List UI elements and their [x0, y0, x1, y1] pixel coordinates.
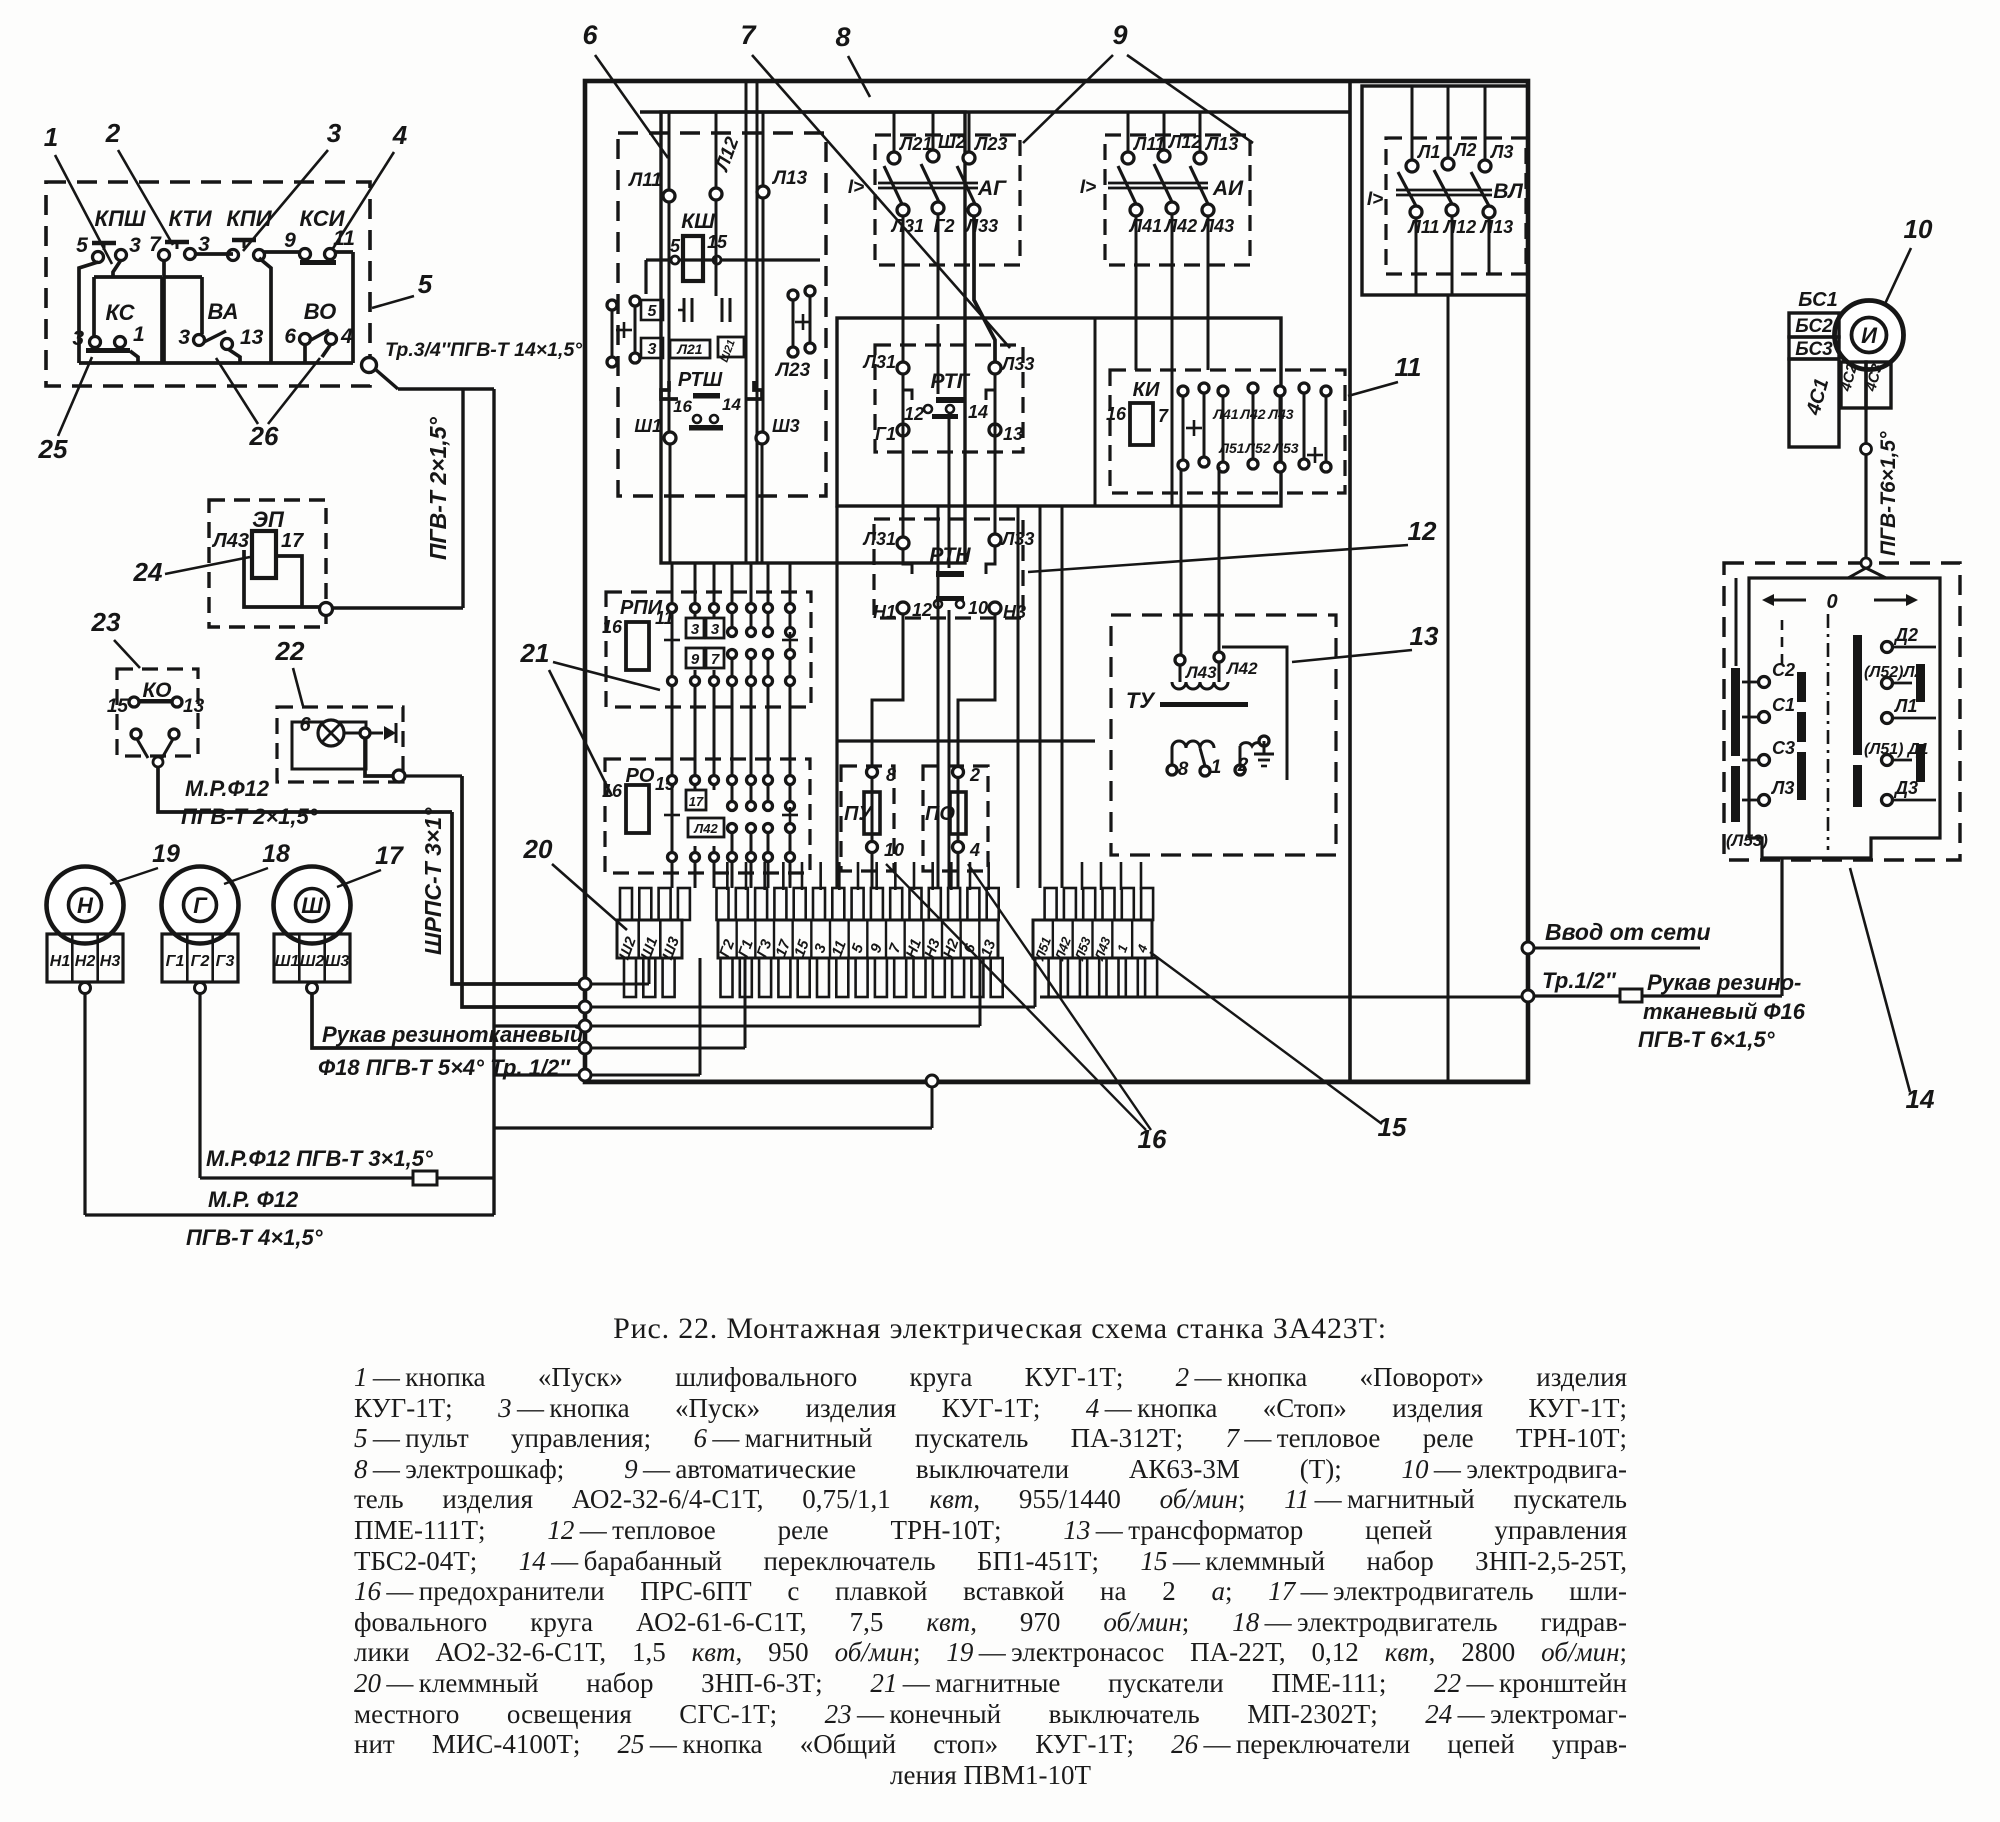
svg-text:Г2: Г2: [191, 953, 210, 970]
terminal G1: [897, 424, 909, 436]
TU primary winding: [1172, 682, 1228, 689]
svg-text:12: 12: [904, 404, 924, 424]
svg-text:8: 8: [835, 22, 850, 52]
svg-text:М.Р.Ф12 ПГВ-Т 3×1,5°: М.Р.Ф12 ПГВ-Т 3×1,5°: [206, 1146, 433, 1171]
wires AG down: [902, 216, 905, 362]
svg-text:Ш1: Ш1: [275, 953, 300, 970]
svg-text:Л31: Л31: [862, 352, 896, 372]
terminal strip 15 group main: [718, 920, 998, 958]
drum terminal S3: [1759, 755, 1770, 766]
svg-text:13: 13: [1003, 424, 1023, 444]
node Vvod ot seti: [1522, 942, 1534, 954]
svg-text:25: 25: [38, 434, 68, 464]
svg-text:6: 6: [960, 941, 979, 955]
svg-text:Н1: Н1: [50, 953, 71, 970]
svg-text:Ш3: Ш3: [772, 416, 800, 436]
cabinet bottom edge wire to mains: [585, 1080, 1526, 1083]
terminal riser stubs group B: [726, 862, 729, 890]
svg-text:12: 12: [1408, 516, 1437, 546]
svg-text:ПГВ-Т 6×1,5°: ПГВ-Т 6×1,5°: [1638, 1027, 1775, 1052]
svg-text:ВО: ВО: [304, 299, 336, 324]
svg-text:0: 0: [1826, 591, 1837, 613]
svg-text:4: 4: [340, 325, 353, 348]
terminal L33: [989, 362, 1001, 374]
AI wires from bus: [1127, 112, 1130, 152]
svg-text:Л42: Л42: [1163, 216, 1197, 236]
svg-text:КПШ: КПШ: [95, 206, 146, 231]
KO exit node: [153, 757, 163, 767]
push-button KSI: [300, 249, 311, 260]
wire trunk branch 1075: [494, 1073, 579, 1076]
motor I (electric motor 10): [1835, 301, 1904, 370]
terminal 13: [989, 424, 1001, 436]
wires fuses to terminals: [871, 852, 874, 888]
svg-text:21: 21: [520, 638, 550, 668]
svg-text:1: 1: [44, 122, 58, 152]
svg-text:Н1: Н1: [873, 602, 896, 622]
cabinet divider: [1348, 81, 1352, 1081]
inner solid compartment A: [661, 112, 965, 563]
motor Н terminal box: [47, 934, 123, 982]
svg-text:1: 1: [1211, 757, 1222, 778]
terminal L33: [989, 534, 1001, 546]
svg-text:Л41: Л41: [1212, 406, 1238, 422]
mains fuse: [1620, 989, 1642, 1002]
TU secondary 2: [1240, 743, 1264, 746]
drum terminal D1: [1882, 755, 1893, 766]
svg-text:10: 10: [884, 840, 904, 860]
RTN heater: [936, 571, 964, 577]
svg-text:3: 3: [129, 234, 141, 257]
svg-text:24: 24: [133, 557, 163, 587]
svg-text:Л12: Л12: [1167, 132, 1201, 152]
svg-text:17: 17: [375, 842, 404, 870]
svg-text:(Л53): (Л53): [1726, 831, 1768, 850]
svg-text:Рукав резино-: Рукав резино-: [1647, 970, 1801, 995]
svg-text:2: 2: [969, 765, 980, 785]
svg-text:Ш3: Ш3: [325, 953, 350, 970]
svg-text:10: 10: [1904, 214, 1933, 244]
terminal L31: [897, 362, 909, 374]
svg-text:17: 17: [689, 794, 704, 809]
svg-text:7: 7: [711, 651, 720, 668]
svg-text:8: 8: [1178, 759, 1189, 780]
EP node: [320, 603, 333, 616]
svg-text:Л42: Л42: [1225, 659, 1258, 678]
VL trip bar: [1396, 189, 1492, 192]
lamp node: [393, 770, 405, 782]
svg-text:7: 7: [886, 941, 905, 955]
entry nodes on cabinet left edge: [579, 978, 591, 990]
wires RTG-RTN: [902, 374, 905, 537]
terminal BS2 cell: [1789, 313, 1839, 337]
lamp bracket SGS box 22: [277, 707, 403, 782]
input switch VL dashed box: [1386, 138, 1526, 274]
RTG heater: [936, 397, 964, 403]
lamp wire: [344, 732, 360, 735]
svg-text:ВЛ: ВЛ: [1493, 180, 1523, 203]
node on bottom wire: [926, 1075, 938, 1087]
svg-text:15: 15: [107, 696, 129, 717]
aux contacts right: [788, 290, 798, 300]
svg-text:ПУ: ПУ: [844, 803, 873, 825]
svg-text:Л2: Л2: [1452, 140, 1476, 160]
cabinet bottom inner wires: [591, 983, 649, 986]
wire KO cable down: [452, 812, 579, 984]
breaker AI box 9: [1105, 135, 1250, 265]
svg-text:Л23: Л23: [774, 360, 811, 381]
svg-text:1: 1: [133, 323, 145, 346]
motor Ш (electric motor): [274, 867, 351, 944]
wire N motor cable: [83, 994, 86, 1215]
svg-text:16: 16: [1138, 1124, 1167, 1154]
drum contact bars mid-right: [1853, 635, 1862, 755]
svg-text:9: 9: [867, 941, 886, 955]
svg-text:Л42: Л42: [1239, 406, 1265, 422]
aux contacts mid: [683, 298, 686, 322]
svg-text:Г1: Г1: [875, 424, 896, 444]
svg-text:КО: КО: [143, 679, 172, 702]
terminal 4S1 cell: [1789, 359, 1839, 447]
terminal L12: [710, 188, 722, 200]
svg-text:Г3: Г3: [754, 937, 776, 960]
svg-text:3: 3: [811, 941, 830, 955]
TU ground: [1259, 736, 1269, 746]
RTSh contact: [693, 415, 701, 423]
starter RPI box: [606, 592, 811, 707]
wire pult to trunk: [375, 369, 398, 389]
TU inner frame: [1222, 647, 1287, 780]
svg-text:11: 11: [829, 938, 850, 958]
svg-text:И: И: [1861, 323, 1878, 348]
VL wires down: [1415, 218, 1418, 295]
wires inside box 6: [668, 202, 671, 432]
svg-text:М.Р. Ф12: М.Р. Ф12: [208, 1187, 299, 1212]
svg-text:9: 9: [284, 229, 296, 252]
terminal Sh3: [756, 432, 768, 444]
wire mains to fuse: [1534, 994, 1620, 997]
svg-text:I>: I>: [1367, 189, 1383, 210]
wire bottom external: [494, 1126, 932, 1129]
node on I wire: [1861, 444, 1872, 455]
svg-text:16: 16: [673, 397, 692, 416]
svg-text:18: 18: [262, 840, 290, 868]
terminal strip C bottom rail to mains: [1040, 996, 1526, 999]
EP wiring: [244, 550, 322, 607]
svg-text:Л43: Л43: [211, 530, 249, 552]
svg-text:6: 6: [582, 20, 598, 50]
compartment divider: [1094, 318, 1097, 506]
svg-text:Ш21: Ш21: [719, 338, 738, 364]
compartment B left edge extension: [835, 506, 838, 888]
svg-text:9: 9: [691, 651, 700, 668]
svg-text:Ш1: Ш1: [634, 416, 662, 436]
TU core: [1160, 702, 1248, 707]
svg-text:Л3: Л3: [1770, 778, 1794, 798]
svg-text:тканевый Ф16: тканевый Ф16: [1643, 999, 1806, 1024]
terminal 4S3 cell: [1866, 362, 1891, 408]
svg-text:Л53: Л53: [1272, 440, 1298, 456]
svg-text:23: 23: [91, 607, 121, 637]
svg-text:I>: I>: [1080, 177, 1096, 198]
wire down from node: [931, 1087, 934, 1128]
drum terminal D2: [1882, 642, 1893, 653]
svg-text:Л21: Л21: [676, 341, 702, 357]
svg-text:Н3: Н3: [100, 953, 121, 970]
wire mid down: [937, 506, 940, 888]
wires RPI to RO: [671, 686, 674, 774]
svg-text:БС3: БС3: [1795, 339, 1833, 360]
KI coil: [1130, 403, 1153, 445]
svg-text:КПИ: КПИ: [226, 206, 272, 231]
svg-text:15: 15: [707, 232, 728, 252]
svg-text:ПГВ-Т 2×1,5°: ПГВ-Т 2×1,5°: [425, 416, 451, 560]
svg-text:(Л51) Д1: (Л51) Д1: [1864, 741, 1928, 758]
KI aux contacts: [1178, 386, 1188, 396]
drum wiring stubs: [1742, 681, 1758, 684]
svg-text:ВА: ВА: [208, 299, 239, 324]
svg-text:С2: С2: [1772, 660, 1795, 680]
inner solid compartment B: [837, 318, 1281, 506]
svg-text:Л33: Л33: [1000, 354, 1034, 374]
drum entry node: [1861, 558, 1871, 568]
svg-text:17: 17: [281, 530, 304, 552]
AG blades: [884, 166, 902, 204]
Vvod underline: [1534, 947, 1700, 950]
svg-text:М.Р.Ф12: М.Р.Ф12: [185, 776, 270, 801]
VL wires: [1411, 86, 1414, 160]
svg-text:Ш2: Ш2: [938, 132, 966, 152]
TU secondary 1: [1172, 741, 1214, 748]
svg-text:4: 4: [969, 840, 980, 860]
svg-text:КТИ: КТИ: [168, 206, 212, 231]
terminal L13: [757, 186, 769, 198]
svg-text:Г1: Г1: [166, 953, 185, 970]
terminal strip teeth top row: [620, 888, 632, 920]
svg-text:5: 5: [670, 236, 681, 256]
wires RTN down to fuses: [872, 614, 903, 766]
terminal N3: [989, 602, 1001, 614]
svg-text:Ш2: Ш2: [300, 953, 325, 970]
terminal Sh21 box: [718, 337, 744, 357]
lamp exit wire: [365, 738, 395, 776]
wire fuse to drum: [1642, 994, 1782, 997]
wire VL to bottom: [1447, 295, 1450, 1081]
drum right arrow: [1874, 599, 1914, 602]
svg-text:13: 13: [183, 696, 205, 717]
svg-text:4: 4: [392, 120, 408, 150]
EP coil: [252, 531, 276, 578]
terminal Sh1: [664, 432, 676, 444]
svg-text:Л11: Л11: [1406, 217, 1439, 237]
svg-text:17: 17: [772, 937, 794, 959]
svg-text:Л43: Л43: [1200, 216, 1234, 236]
svg-text:3: 3: [327, 118, 342, 148]
svg-text:Л31: Л31: [890, 216, 924, 236]
pult internal wiring: [79, 361, 353, 365]
svg-text:Л1: Л1: [1893, 696, 1917, 716]
wire trunk PGV-T 2x1.5 down to EP: [461, 389, 464, 608]
svg-text:КС: КС: [105, 300, 135, 325]
transformer TU box 13: [1111, 615, 1336, 855]
svg-text:ШРПС-Т 3×1°: ШРПС-Т 3×1°: [420, 807, 446, 955]
svg-text:3: 3: [648, 341, 657, 358]
fuse PO box 16: [923, 766, 988, 871]
svg-text:ТУ: ТУ: [1126, 688, 1156, 713]
svg-text:13: 13: [240, 326, 264, 349]
svg-text:16: 16: [1106, 404, 1127, 424]
terminal L31: [897, 537, 909, 549]
drum terminal D3: [1882, 795, 1893, 806]
svg-text:10: 10: [968, 598, 988, 618]
svg-text:12: 12: [912, 600, 932, 620]
svg-text:4С1: 4С1: [1802, 376, 1833, 418]
fuse PU box 16: [841, 766, 894, 871]
wire lamp cable down: [462, 776, 579, 1007]
TU primary terminals: [1175, 655, 1185, 665]
svg-text:Л12: Л12: [1442, 217, 1476, 237]
motor Г terminal box: [162, 934, 238, 982]
terminal N1: [897, 602, 909, 614]
svg-text:Л21: Л21: [898, 134, 932, 154]
wires to terminal C: [1017, 506, 1020, 888]
svg-text:Л1: Л1: [1416, 142, 1440, 162]
svg-text:9: 9: [1112, 20, 1127, 50]
svg-text:КИ: КИ: [1133, 379, 1160, 401]
wire L11 drop: [668, 112, 671, 190]
RO coil: [626, 785, 649, 833]
KO exit wire: [158, 767, 452, 812]
svg-text:Д2: Д2: [1893, 625, 1918, 645]
figure title: [0, 1312, 2000, 1346]
svg-text:Н3: Н3: [1003, 602, 1026, 622]
svg-text:БС1: БС1: [1798, 289, 1837, 311]
svg-text:22: 22: [275, 636, 305, 666]
svg-text:Н: Н: [77, 893, 94, 918]
svg-text:I>: I>: [848, 177, 864, 198]
svg-text:Тр.1/2″: Тр.1/2″: [1542, 968, 1617, 993]
svg-text:16: 16: [602, 617, 623, 637]
AG wires from bus: [893, 112, 896, 152]
svg-text:Л11: Л11: [627, 170, 662, 191]
junction node - pult cable exit: [362, 358, 377, 373]
svg-text:13: 13: [1410, 621, 1439, 651]
drum inner box: [1749, 578, 1940, 858]
svg-text:5: 5: [648, 303, 658, 320]
RO contacts: [668, 776, 677, 785]
svg-text:Л43: Л43: [1267, 406, 1293, 422]
cabinet top bus wire: [640, 110, 1350, 113]
wire trunk branch 1026: [494, 1024, 579, 1027]
svg-text:Л11: Л11: [1132, 134, 1165, 154]
svg-text:14: 14: [722, 395, 741, 414]
svg-text:4: 4: [1134, 942, 1151, 956]
svg-text:8: 8: [886, 765, 896, 785]
svg-text:БС2: БС2: [1795, 316, 1833, 337]
bundle risers to top edge: [745, 81, 748, 112]
svg-text:АГ: АГ: [977, 177, 1007, 200]
svg-text:5: 5: [418, 269, 433, 299]
svg-text:7: 7: [1158, 406, 1169, 426]
breaker AG box 9: [875, 135, 1020, 265]
svg-text:Рукав резинотканевый: Рукав резинотканевый: [322, 1022, 584, 1047]
drum terminal S1: [1759, 712, 1770, 723]
svg-text:13: 13: [978, 937, 1000, 959]
wire Sh motor cable: [312, 994, 579, 1048]
svg-text:2: 2: [105, 118, 121, 148]
wires compartment A to RPI: [671, 563, 674, 602]
svg-text:Л43: Л43: [1184, 663, 1217, 682]
motor Г (electric motor): [162, 867, 239, 944]
svg-text:АИ: АИ: [1212, 177, 1244, 200]
input switch VL solid box: [1362, 86, 1528, 295]
wire G motor cable: [198, 994, 201, 1178]
svg-text:Д3: Д3: [1893, 778, 1918, 798]
svg-text:Г1: Г1: [735, 937, 757, 959]
AI trip bar: [1108, 182, 1208, 185]
TU bottom terminals: [1167, 765, 1177, 775]
svg-text:7: 7: [740, 20, 757, 50]
starter RO box: [605, 759, 810, 873]
svg-text:Л13: Л13: [1204, 134, 1238, 154]
svg-text:С1: С1: [1772, 695, 1795, 715]
svg-text:Ф18 ПГВ-Т 5×4° Тр. 1/2″: Ф18 ПГВ-Т 5×4° Тр. 1/2″: [318, 1055, 571, 1080]
svg-text:ЭП: ЭП: [252, 507, 285, 532]
svg-text:Л51: Л51: [1218, 440, 1244, 456]
svg-text:Г3: Г3: [216, 953, 235, 970]
wires RO to terminals: [671, 862, 674, 888]
node mains: [1522, 990, 1534, 1002]
svg-text:14: 14: [968, 402, 988, 422]
aux contacts left: [607, 300, 617, 310]
fuse in G cable: [413, 1171, 437, 1185]
terminal strip teeth bottom row: [624, 958, 636, 997]
svg-text:3: 3: [691, 621, 700, 638]
svg-text:15: 15: [1378, 1112, 1407, 1142]
svg-text:Л13: Л13: [1479, 217, 1513, 237]
wire main trunk 14x down: [492, 389, 495, 1215]
terminal strip 20 group Sh: [617, 920, 682, 958]
cabinet box 8 (электрошкаф): [585, 81, 1528, 1082]
wires AI down: [1135, 216, 1138, 370]
terminal 4S2 cell: [1841, 362, 1866, 408]
svg-text:1: 1: [1114, 942, 1131, 954]
svg-text:3: 3: [178, 326, 190, 349]
svg-text:5: 5: [76, 234, 88, 257]
electromagnet EP box 24: [209, 500, 326, 627]
drum contact bars right: [1916, 664, 1925, 702]
svg-text:Ввод от сети: Ввод от сети: [1545, 919, 1711, 945]
motor Н node: [80, 983, 91, 994]
svg-text:Г2: Г2: [716, 937, 738, 960]
magnetic starter box 6 dashed: [618, 133, 826, 496]
svg-text:11: 11: [1395, 352, 1422, 382]
RPI coil: [626, 622, 649, 670]
svg-text:5: 5: [848, 941, 867, 955]
drum terminal L1: [1882, 713, 1893, 724]
svg-text:6: 6: [284, 325, 296, 348]
svg-text:20: 20: [523, 834, 553, 864]
drum terminal L3: [1759, 795, 1770, 806]
RTN contact: [934, 600, 942, 608]
svg-text:(Л52)Л2: (Л52)Л2: [1864, 664, 1923, 681]
drum contact bars left: [1731, 668, 1740, 756]
terminal L21 box: [670, 340, 710, 358]
svg-text:Л3: Л3: [1489, 142, 1513, 162]
drum terminal S2: [1759, 677, 1770, 688]
drum contact bars mid-left: [1797, 672, 1806, 702]
svg-text:Л42: Л42: [693, 821, 718, 836]
